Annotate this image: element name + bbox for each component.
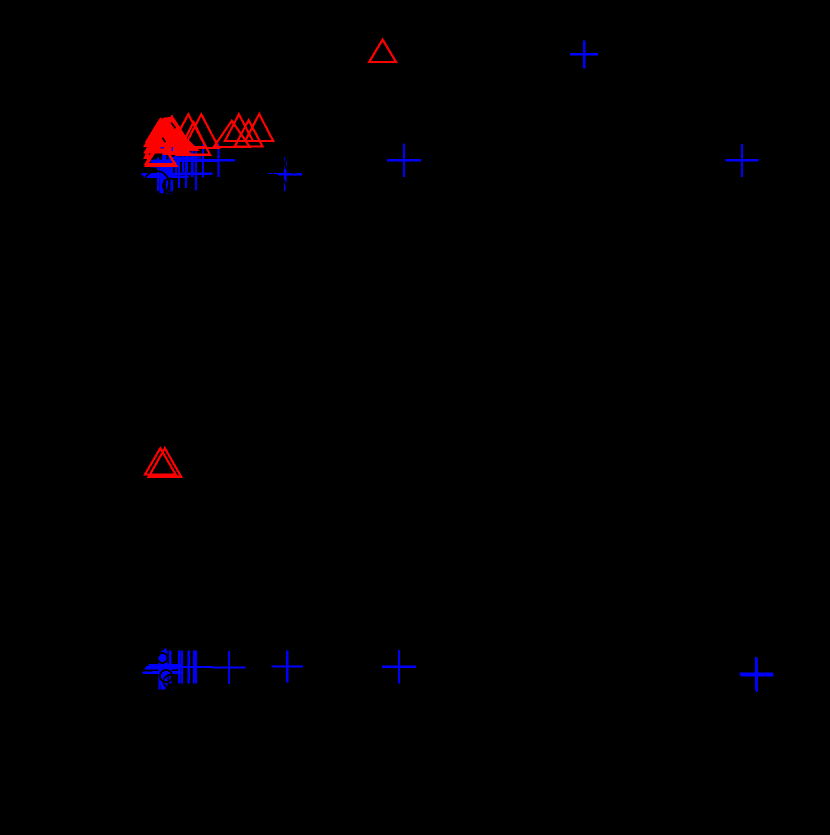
black slit in red mass 2 [162,138,165,142]
blue plus [176,144,209,177]
black circle (overplotted series) [158,653,168,663]
blue plus [151,152,179,180]
blue sliver behind red 1 [160,147,163,149]
black circle (overplotted series) [285,154,303,172]
blue plus [182,146,211,175]
black circle (overplotted series) [144,171,169,196]
blue plus [151,160,184,193]
red outline triangle M1 [171,114,206,147]
blue plus [740,659,773,692]
blue plus [172,160,200,188]
red outline triangle R2 [225,114,253,141]
red outline triangle A2 [146,140,175,164]
blue plus [143,656,176,689]
blue plus [153,144,186,177]
black circle (overplotted series) [259,175,287,203]
blue plus [178,650,211,683]
blue plus [740,657,773,690]
blue sliver behind red 2 [171,147,173,151]
red outline triangle M3 [177,122,210,155]
blue plus [159,144,192,177]
blue plus [150,149,178,177]
blue plus [148,650,181,683]
blue plus [146,160,179,193]
blue plus [570,40,598,68]
blue plus [149,151,177,179]
blue plus [726,144,759,177]
red outline triangle R3 [235,120,263,146]
black slit in red mass 1 [171,123,175,129]
blue plus [212,651,245,684]
blue plus [154,650,187,683]
blue plus [382,650,416,684]
red isolated triangle top [369,40,396,62]
blue plus [169,144,197,172]
blue plus [163,650,196,683]
red outline triangle A1 [146,142,177,166]
red outline triangle R4 [245,114,273,141]
blue plus [148,656,181,689]
blue plus [145,656,178,689]
blue plus [152,658,180,686]
blue plus [179,650,212,683]
blue plus [173,144,201,172]
blue plus [202,144,235,177]
blue plus [151,151,179,179]
black circle (overplotted series) [160,670,172,682]
blue plus [272,651,304,683]
blue plus [172,650,205,683]
blue plus [141,158,174,191]
blue plus [144,652,177,685]
blue plus [146,650,179,683]
red double triangle lower-left [145,448,176,474]
blue plus [151,147,179,175]
blue plus [149,648,182,681]
red outline triangle R1 [214,121,250,147]
blue plus [165,650,198,683]
blue plus [186,144,219,177]
blue plus [387,143,421,177]
blue plus [155,160,188,193]
blue plus [165,160,193,188]
red outline triangle M2 [184,114,219,148]
red triangle mass (filled overlap blob) [147,117,188,146]
blue plus [150,650,183,683]
blue plus [179,157,212,190]
black circle (overplotted series) [164,675,177,688]
black circle (overplotted series) [163,179,177,193]
red mass bottom-left corner [144,152,150,158]
blue plus [268,158,301,191]
blue plus [144,160,177,193]
